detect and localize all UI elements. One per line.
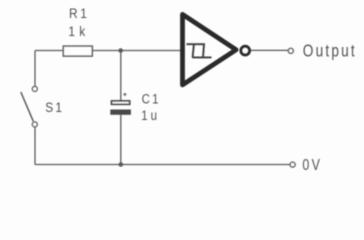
node: junction of R1, C1 and inverter input: [118, 48, 123, 53]
capacitor C1 polarity plus mark: [123, 93, 126, 96]
wire: junction down to capacitor top plate: [120, 51, 122, 101]
switch S1: [21, 86, 38, 127]
capacitor C1: [110, 93, 131, 115]
wire: 0V bottom rail: [35, 164, 290, 166]
svg-text:C1: C1: [142, 92, 161, 107]
svg-text:Output: Output: [303, 42, 357, 61]
switch S1 top contact circle: [32, 86, 37, 91]
svg-text:S1: S1: [45, 99, 64, 115]
wire: capacitor bottom plate down to 0V rail: [120, 115, 122, 165]
svg-text:1k: 1k: [68, 23, 89, 39]
switch S1 blade: [21, 92, 34, 121]
capacitor C1 top plate (outlined): [112, 101, 130, 104]
inverter output bubble: [241, 46, 250, 55]
wire: top rail from switch branch to resistor: [35, 50, 63, 52]
wire: left vertical drop to switch top contact: [34, 51, 36, 87]
terminal: Output: [288, 48, 293, 53]
node: junction of C1 branch with 0V rail: [119, 162, 124, 167]
svg-text:1u: 1u: [141, 108, 160, 123]
wire: switch bottom contact down to 0V rail: [34, 127, 36, 164]
wire: bubble to output terminal: [251, 49, 288, 51]
wire: resistor to inverter input: [92, 50, 182, 52]
svg-text:0V: 0V: [302, 157, 322, 175]
capacitor C1 bottom plate (filled): [110, 110, 131, 115]
svg-text:R1: R1: [69, 5, 90, 21]
resistor R1: [63, 46, 92, 56]
switch S1 bottom contact circle: [32, 122, 37, 127]
op-amp U1 Schmitt-trigger inverter triangle: [183, 14, 237, 85]
hysteresis symbol inside U1: [187, 44, 212, 57]
terminal: 0V: [290, 162, 295, 167]
